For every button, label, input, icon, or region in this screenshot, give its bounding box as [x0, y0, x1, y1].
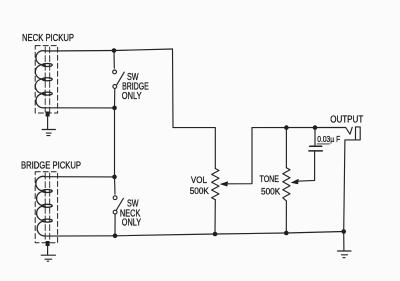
- VOL wiper arrow: [220, 181, 228, 186]
- wire VOL wiper to output line: [227, 128, 253, 184]
- label TONE 500K: [260, 173, 281, 196]
- svg-text:500K: 500K: [190, 185, 210, 196]
- label SW NECK ONLY: [120, 199, 141, 229]
- svg-text:VOL: VOL: [191, 174, 207, 185]
- wire SW1 upper stub: [113, 51, 115, 69]
- wire neck hot (top): [45, 49, 172, 51]
- capacitor C1 0.03uF: [309, 146, 322, 151]
- potentiometer R1 VOL 500K (zigzag): [212, 169, 219, 200]
- svg-text:BRIDGE PICKUP: BRIDGE PICKUP: [21, 161, 81, 172]
- output jack tip contact (V): [346, 127, 353, 134]
- wire TONE top: [285, 128, 287, 168]
- node bridge cold on bus: [113, 234, 118, 239]
- neck coil-to-core junction blob: [46, 112, 50, 117]
- svg-text:ONLY: ONLY: [122, 91, 142, 102]
- switch SW2 (SW NECK ONLY): [113, 196, 123, 214]
- switch SW1 (SW BRIDGE ONLY): [113, 70, 125, 88]
- node capacitor top on output line: [313, 125, 318, 130]
- bridge pickup shield (dashed box): [35, 172, 57, 243]
- ground (output jack): [338, 251, 352, 258]
- output jack body (plug rectangle): [356, 127, 361, 140]
- node neck hot / SW1 top: [112, 48, 117, 53]
- neck pickup shield (dashed box): [35, 46, 57, 113]
- ground (neck pickup): [42, 130, 55, 136]
- node jack sleeve on bus: [341, 229, 346, 234]
- bridge pickup coil L2: [36, 176, 52, 236]
- svg-text:OUTPUT: OUTPUT: [330, 114, 363, 125]
- svg-text:TONE: TONE: [260, 173, 280, 184]
- svg-text:NECK PICKUP: NECK PICKUP: [22, 33, 74, 44]
- label SW BRIDGE ONLY: [122, 72, 149, 102]
- svg-text:ONLY: ONLY: [122, 217, 142, 228]
- wire series link (neck cold to bridge hot): [114, 108, 116, 177]
- neck pickup coil L1: [35, 51, 52, 108]
- wire VOL bottom to bus: [214, 200, 216, 234]
- potentiometer R2 TONE 500K (zigzag): [283, 168, 290, 201]
- neck pickup core (pole piece lines): [45, 47, 50, 112]
- wire bridge core to ground: [47, 246, 49, 255]
- output jack sleeve wire to ground: [344, 140, 356, 232]
- svg-text:0.03µ F: 0.03µ F: [317, 135, 340, 144]
- bridge coil-to-core junction blob: [46, 241, 50, 246]
- wire TONE wiper to capacitor: [298, 151, 315, 181]
- wire to output ground: [343, 232, 345, 251]
- node TONE bottom on bus: [284, 231, 289, 236]
- output line wire: [252, 127, 346, 129]
- wire SW1 lower stub: [114, 89, 116, 108]
- node TONE top on output line: [284, 125, 289, 130]
- wire SW2 lower stub: [114, 214, 116, 236]
- wire SW2 upper stub: [114, 177, 117, 194]
- node VOL bottom on bus: [213, 232, 218, 237]
- wire neck cold (bottom): [44, 107, 115, 109]
- wire bridge hot (top): [45, 176, 114, 178]
- node neck cold: [112, 106, 117, 111]
- wire capacitor top: [314, 128, 316, 147]
- bridge pickup core (pole piece lines): [45, 173, 50, 242]
- label VOL 500K: [190, 174, 210, 196]
- node bridge hot / SW2 top: [112, 175, 117, 180]
- wire hot feed down and to VOL top: [173, 49, 216, 169]
- TONE wiper arrow: [291, 179, 299, 184]
- wire TONE bottom to bus: [285, 201, 287, 233]
- wire neck core to ground: [47, 116, 49, 129]
- svg-text:500K: 500K: [261, 185, 281, 196]
- ground bus wire: [44, 232, 344, 237]
- ground (bridge pickup): [41, 255, 55, 261]
- underline under 0.03: [317, 143, 329, 145]
